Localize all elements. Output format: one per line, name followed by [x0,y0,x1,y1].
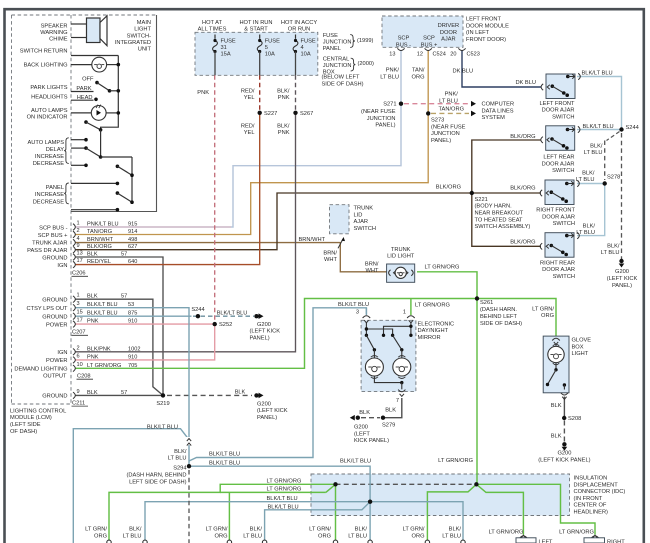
wire LT GRN/ORG IDC bus left of dot A [109,484,336,541]
svg-text:PARK: PARK [76,86,91,92]
svg-text:TO HEATED SEAT: TO HEATED SEAT [475,217,524,223]
svg-text:S219: S219 [156,401,169,407]
wire LT GRN/ORG branch down to mirror pin 1 [410,299,412,316]
svg-text:PANEL): PANEL) [612,283,632,289]
svg-text:(NEAR FUSE: (NEAR FUSE [431,124,466,130]
svg-text:CTSY LPS OUT: CTSY LPS OUT [27,306,69,312]
wire PNK 910 from C207 pin17 to splice S252 [75,323,215,325]
splice S244 [619,125,638,132]
auto lamps delay increase decrease switch [71,138,134,202]
svg-text:BLK: BLK [551,434,562,440]
wire BLK/PNK 1002 from S267 to C208 pin2 [75,113,296,352]
svg-text:BLK/: BLK/ [174,449,187,455]
svg-text:BLK: BLK [359,410,370,416]
svg-text:PANEL): PANEL) [431,138,451,144]
mirror internal wiring [365,323,413,352]
door module pin 13 [389,48,404,57]
labels mirror [356,310,454,416]
svg-text:DOOR AJAR: DOOR AJAR [542,267,575,273]
svg-text:(LEFT: (LEFT [354,431,370,437]
svg-text:FRONT DOOR): FRONT DOOR) [466,37,506,43]
wire BLK/LT BLU IDC bus from left terminal through dot C to right terminal [145,502,463,542]
door module pin 12 C524 [417,48,446,57]
svg-text:CENTRAL: CENTRAL [323,57,350,63]
svg-text:BACK LIGHTING: BACK LIGHTING [24,63,68,69]
svg-text:LT BLU: LT BLU [442,533,461,539]
electronic day/night mirror pins [363,308,415,323]
wire PNK dashed from fuse 31 to splice S252 [214,75,216,321]
svg-text:S271: S271 [383,101,396,107]
svg-text:G200: G200 [615,269,629,275]
svg-text:JUNCTION: JUNCTION [323,40,352,46]
labels trunk lid ajar switch [354,206,376,232]
IDC internal dashed bus between dots [336,483,477,485]
connector C207 label [72,330,89,336]
svg-text:BLK: BLK [87,390,98,396]
svg-text:10A: 10A [265,52,275,58]
svg-text:LT BLU: LT BLU [584,150,603,156]
svg-text:INCREASE: INCREASE [35,192,64,198]
wire LT GRN/ORG from S261 to glove box light [477,299,556,338]
svg-text:1002: 1002 [128,346,140,352]
ground arrow G200 for S219 [235,390,288,421]
dashed S294 harness line to bottom edge [188,470,190,543]
svg-text:SPEAKER: SPEAKER [41,23,68,29]
svg-text:S221: S221 [475,197,488,203]
svg-text:PNK: PNK [278,95,290,101]
svg-text:LEFT REAR: LEFT REAR [543,155,574,161]
svg-text:ORG: ORG [412,74,425,80]
svg-text:PANEL): PANEL) [257,415,277,421]
wire BLK/PNK dashed from fuse 4 to splice S267 [295,75,297,110]
svg-text:ORG: ORG [215,533,228,539]
splice S267 [293,111,313,117]
wire BLK dashed from S279 to ground G200 [361,417,380,419]
svg-text:DOOR AJAR: DOOR AJAR [542,161,575,167]
svg-text:BLK/: BLK/ [250,527,263,533]
svg-text:TAN/ORG: TAN/ORG [87,229,112,235]
svg-text:4: 4 [77,236,80,242]
svg-text:DAY/NIGHT: DAY/NIGHT [418,328,449,334]
svg-text:LT BLU: LT BLU [348,533,367,539]
svg-text:S267: S267 [300,111,313,117]
dashed ground path from S244 to G200 left kick panel [621,133,623,259]
svg-text:ON INDICATOR: ON INDICATOR [27,115,68,121]
svg-text:7: 7 [396,398,399,404]
svg-text:SWITCH RETURN: SWITCH RETURN [20,48,68,54]
svg-text:CONNECTOR (IDC): CONNECTOR (IDC) [574,489,626,495]
svg-text:914: 914 [128,229,137,235]
svg-text:JUNCTION: JUNCTION [323,63,352,69]
mirror map lamp right [393,350,411,379]
wire LT GRN/ORG from IDC dot A down to terminal [335,484,337,541]
wire PNK/LT BLU dashed from splice S271 to computer data lines arrow [404,103,469,105]
svg-text:12: 12 [417,52,423,58]
electronic day/night mirror box [361,320,416,391]
connector C208 rows [73,345,140,371]
svg-text:(LEFT KICK: (LEFT KICK [250,329,281,335]
svg-text:BLK/: BLK/ [277,88,290,94]
svg-text:PANEL: PANEL [323,46,341,52]
svg-text:ORG: ORG [94,533,107,539]
wire BLK 57 from C211 pin9 to splice S219 [75,394,163,396]
svg-text:MIRROR: MIRROR [418,335,441,341]
splice S221 [470,191,531,230]
svg-text:SYSTEM: SYSTEM [482,115,506,121]
svg-text:BLK: BLK [385,408,396,414]
svg-text:(1999): (1999) [357,38,374,44]
svg-text:BLK/: BLK/ [607,243,620,249]
svg-text:RED/: RED/ [241,123,255,129]
svg-text:LT BLU: LT BLU [601,250,620,256]
svg-text:(BELOW LEFT: (BELOW LEFT [322,75,360,81]
svg-text:15A: 15A [221,52,231,58]
svg-text:BRN/: BRN/ [323,250,337,256]
lighting control module LCM dashed enclosure [12,15,157,404]
wire BLK dashed from S219 to ground G200 [167,394,252,396]
svg-text:AUTO LAMPS: AUTO LAMPS [27,140,64,146]
svg-text:MODULE (LCM): MODULE (LCM) [10,415,52,421]
svg-text:BUS +: BUS + [421,42,438,48]
svg-text:LEFT FRONT: LEFT FRONT [466,17,501,23]
svg-text:(DASH HARN, BEHIND: (DASH HARN, BEHIND [126,473,186,479]
svg-text:57: 57 [121,252,127,258]
svg-text:G200: G200 [257,322,271,328]
labels IDC [574,476,626,516]
brace panel increase [64,183,69,204]
wire BLK/LT BLU IDC lower-left branch [265,502,371,542]
svg-text:(LEFT KICK PANEL): (LEFT KICK PANEL) [538,458,590,464]
svg-text:SWITCH: SWITCH [553,221,575,227]
svg-text:DOOR MODULE: DOOR MODULE [466,23,509,29]
svg-text:FUSE: FUSE [221,38,236,44]
svg-text:FUSE: FUSE [301,38,316,44]
computer data lines arrows [471,101,514,121]
svg-text:9: 9 [77,389,80,395]
connector C206 rows [73,221,137,268]
insulation displacement connector IDC box [311,474,570,516]
svg-text:HEAD: HEAD [77,95,93,101]
svg-text:BLK/: BLK/ [355,527,368,533]
svg-text:G200: G200 [557,451,571,457]
trunk lid ajar switch box [330,205,350,234]
svg-text:& START: & START [244,27,268,33]
svg-text:BEHIND LEFT: BEHIND LEFT [480,314,518,320]
svg-text:SWITCH: SWITCH [552,115,574,121]
wire RED/YEL dashed from fuse 5 to splice S227 [259,75,261,110]
svg-text:2: 2 [77,228,80,234]
svg-text:LEFT FRONT: LEFT FRONT [540,101,575,107]
svg-text:(DASH HARN.: (DASH HARN. [480,307,517,313]
wire BLK/LT BLU from left rear door ajar switch to S244 [577,129,622,131]
svg-text:CENTER OF: CENTER OF [574,503,607,509]
svg-text:DECREASE: DECREASE [33,161,64,167]
svg-text:LIGHT: LIGHT [134,27,151,33]
svg-text:2: 2 [77,345,80,351]
svg-text:17: 17 [77,258,83,264]
svg-text:DISPLACEMENT: DISPLACEMENT [574,482,619,488]
svg-text:LEFT: LEFT [539,539,553,543]
svg-text:5: 5 [265,45,268,51]
svg-text:PNK: PNK [197,90,209,96]
left front door ajar switch [540,73,581,120]
svg-text:SWITCH ASSEMBLY): SWITCH ASSEMBLY) [475,224,531,230]
brace auto lamps delay [64,138,69,164]
svg-text:GROUND: GROUND [42,315,67,321]
svg-text:LT GRN/ORG: LT GRN/ORG [559,529,594,535]
svg-text:640: 640 [128,259,137,265]
wire PNK/LT BLU 915 SCP BUS- from C206 pin1 to door module pin13 [75,50,401,227]
splice S219 [156,393,169,407]
svg-text:BLK: BLK [87,252,98,258]
svg-text:BLK/LT BLU: BLK/LT BLU [267,496,298,502]
IDC junction dot A [333,482,337,486]
wire RED/YEL 640 from S227 to C206 pin17 [75,113,260,265]
ground arrow G200 for circuit 875 [217,311,281,342]
svg-text:GROUND: GROUND [42,255,67,261]
svg-text:(NEAR FUSE: (NEAR FUSE [361,109,396,115]
svg-text:C208: C208 [77,374,91,380]
labels door module [380,17,509,113]
svg-text:C524: C524 [433,52,446,58]
svg-text:(BODY HARN.: (BODY HARN. [475,204,513,210]
svg-text:SCP: SCP [423,36,435,42]
svg-text:C206: C206 [72,271,86,277]
svg-text:3: 3 [77,301,80,307]
svg-text:S273: S273 [431,117,444,123]
svg-text:1: 1 [77,221,80,227]
ground arrow G200 for mirror [350,415,389,444]
svg-text:TRUNK: TRUNK [354,206,374,212]
svg-text:31: 31 [221,45,227,51]
svg-text:10A: 10A [301,52,311,58]
svg-text:INSULATION: INSULATION [574,476,608,482]
svg-text:LT GRN/: LT GRN/ [85,527,107,533]
svg-text:S244: S244 [626,125,639,131]
glove box light [543,336,569,399]
svg-text:JUNCTION: JUNCTION [367,116,396,122]
wire BLK 57 from C206 pin13 down to splice S219 [75,257,163,395]
svg-text:BLK/LT BLU: BLK/LT BLU [87,302,118,308]
wire BLK/LT BLU branch to lower left terminal [73,429,189,543]
svg-text:HEADLINER): HEADLINER) [574,510,609,516]
svg-text:3: 3 [356,310,359,316]
svg-text:LT BLU: LT BLU [168,456,187,462]
svg-text:DECREASE: DECREASE [33,200,64,206]
inline connector symbol on BLK/LT BLU [186,437,193,446]
wire BLK from mirror pin7 to splice S279 [383,398,402,418]
wire BLK from glove box light to splice S208 [563,397,565,419]
svg-text:YEL: YEL [244,130,255,136]
svg-text:ORG: ORG [318,533,331,539]
svg-text:910: 910 [128,319,137,325]
svg-text:LT GRN/ORG: LT GRN/ORG [267,487,302,493]
svg-text:(IN LEFT: (IN LEFT [466,30,490,36]
label LCM module name [10,408,66,434]
svg-text:DK BLU: DK BLU [453,69,474,75]
svg-text:HOT IN RUN: HOT IN RUN [239,20,272,26]
svg-text:LID: LID [354,212,363,218]
splice S294 [126,464,191,485]
brace 1999 [350,35,355,48]
svg-text:PNK/: PNK/ [445,92,459,98]
bottom harness terminals [107,540,465,543]
labels fuse values [221,38,316,57]
svg-text:BLK/LT BLU: BLK/LT BLU [209,460,240,466]
svg-text:HOT IN ACCY: HOT IN ACCY [281,20,317,26]
svg-text:IGN: IGN [57,263,67,269]
svg-text:BOX: BOX [572,344,584,350]
svg-text:OFF: OFF [82,76,94,82]
wire LT GRN/ORG 705 demand lighting output from C208 pin10 up to dash bus [75,299,477,369]
svg-text:GROUND: GROUND [42,298,67,304]
svg-text:DOOR AJAR: DOOR AJAR [542,108,575,114]
wire LT GRN/ORG diagonal into IDC dot A and branch terminal [220,484,335,541]
wire BLK/LT BLU from S294 upper branch to mirror pin 3 [189,308,366,461]
svg-text:LT BLU: LT BLU [576,230,595,236]
mirror map lamp left [365,350,383,379]
svg-text:GROUND: GROUND [42,394,67,400]
svg-text:MAIN: MAIN [137,20,151,26]
labels bottom harness [85,424,594,539]
wire BLK/LT BLU 875 from C207 pin15 dashed to ground G200 via splice S244 [75,315,254,317]
svg-text:LT BLU: LT BLU [243,533,262,539]
svg-text:BLK/PNK: BLK/PNK [87,346,111,352]
svg-text:BLK: BLK [551,403,562,409]
wire LT GRN/ORG IDC bus right of dot B to right courtesy lamp [476,484,595,534]
fuse 4 10A [293,35,298,76]
svg-text:705: 705 [128,363,137,369]
splice S278 [603,175,621,186]
wire BLK dashed from S208 to ground G200 [563,421,565,442]
svg-text:BUS -: BUS - [396,42,411,48]
labels center wires [197,88,554,319]
left courtesy lamp connector [516,535,553,543]
splice S208 [562,416,581,422]
svg-text:BLK/LT BLU: BLK/LT BLU [583,124,614,130]
svg-text:LT GRN/: LT GRN/ [403,527,425,533]
right rear door ajar switch [540,232,579,280]
ground G200 for glove box [538,442,590,463]
svg-text:ORG: ORG [541,313,554,319]
labels glove box [551,338,592,440]
wire BLK/LT BLU from S294 to IDC dot C [189,466,370,502]
wire BLK 57 from C207 pin1 down to splice S219 [75,299,163,395]
svg-text:BLK/ORG: BLK/ORG [436,185,461,191]
svg-text:TAN/: TAN/ [412,68,425,74]
svg-text:BLK/LT BLU: BLK/LT BLU [340,458,371,464]
IDC junction dot C [368,500,372,504]
svg-text:C523: C523 [467,52,480,58]
svg-text:LT GRN/ORG: LT GRN/ORG [87,363,121,369]
svg-text:PNK/LT BLU: PNK/LT BLU [87,222,119,228]
svg-text:6: 6 [77,353,80,359]
svg-text:RIGHT FRONT: RIGHT FRONT [536,208,575,214]
svg-text:PNK: PNK [87,319,99,325]
svg-text:BLK/: BLK/ [590,143,603,149]
wire BLK/LT BLU from S278 down to right rear door ajar switch [577,184,605,236]
labels main light switch [115,20,152,52]
svg-text:OUTPUT: OUTPUT [43,374,67,380]
svg-text:IGN: IGN [57,350,67,356]
svg-text:LT GRN/: LT GRN/ [532,306,554,312]
splice S273 [426,111,466,144]
svg-text:YEL: YEL [244,95,255,101]
svg-text:LT GRN/ORG: LT GRN/ORG [438,458,473,464]
svg-text:LEFT SIDE OF DASH): LEFT SIDE OF DASH) [129,479,187,485]
svg-text:PANEL): PANEL) [250,336,270,342]
svg-text:RIGHT: RIGHT [607,539,625,543]
svg-text:BLK/LT BLU: BLK/LT BLU [217,311,248,317]
svg-text:PASS DR AJAR: PASS DR AJAR [27,248,67,254]
svg-text:S208: S208 [568,416,581,422]
trunk lid light [387,264,415,282]
svg-text:POWER: POWER [46,358,68,364]
svg-text:10: 10 [77,362,83,368]
svg-text:ALL TIMES: ALL TIMES [198,27,227,33]
svg-text:AJAR: AJAR [354,219,369,225]
svg-text:GLOVE: GLOVE [572,338,592,344]
svg-text:BLK/LT BLU: BLK/LT BLU [147,424,178,430]
svg-text:WHT: WHT [366,268,379,274]
svg-text:S278: S278 [607,175,620,181]
svg-text:BRN/: BRN/ [365,261,379,267]
svg-text:PANEL: PANEL [46,185,64,191]
svg-text:S227: S227 [264,111,277,117]
left rear door ajar switch [541,126,580,174]
connector C206 label [72,271,89,277]
headlight switch OFF PARK HEAD [71,81,120,101]
svg-text:BLK/ORG: BLK/ORG [510,239,535,245]
svg-text:PARK LIGHTS: PARK LIGHTS [30,85,67,91]
svg-text:875: 875 [128,311,137,317]
splice S261 [475,296,522,327]
svg-text:LT GRN/ORG: LT GRN/ORG [425,265,460,271]
brace 2000 [351,58,356,71]
labels LCM left column [14,23,94,399]
fuse junction panel box [195,32,318,75]
svg-text:LT BLU: LT BLU [576,177,595,183]
fuse 5 10A [257,35,262,76]
fuse 31 15A [213,35,218,76]
panel increase decrease switch [71,182,134,212]
svg-text:627: 627 [128,244,137,250]
auto lamps on-off switch blade [84,120,102,157]
wire BLK/LT BLU 53 ctsy lps out from C207 pin3 down to splice S294 [75,308,189,467]
labels right column wires [436,71,620,257]
svg-text:DRIVER: DRIVER [438,23,460,29]
main light switch-integrated unit right border [71,15,157,212]
svg-text:LID LIGHT: LID LIGHT [387,254,415,260]
labels fuse panel header [198,20,318,33]
svg-text:S244: S244 [191,307,204,313]
svg-text:498: 498 [128,237,137,243]
svg-text:DOOR AJAR: DOOR AJAR [542,214,575,220]
right front door ajar switch [536,180,579,227]
svg-text:TAN/ORG: TAN/ORG [439,107,465,113]
svg-text:OF DASH): OF DASH) [10,429,37,435]
door module pin 20 C523 [450,48,480,57]
svg-text:LIGHT: LIGHT [572,351,589,357]
svg-text:C211: C211 [72,400,85,406]
svg-text:BLK/ORG: BLK/ORG [510,185,535,191]
splice S227 [258,111,278,117]
svg-text:910: 910 [128,354,137,360]
wire BRN/WHT 498 from C206 pin4 to trunk lid light [75,243,387,272]
svg-text:INCREASE: INCREASE [35,154,64,160]
svg-text:PNK: PNK [278,130,290,136]
svg-text:S279: S279 [382,423,395,429]
